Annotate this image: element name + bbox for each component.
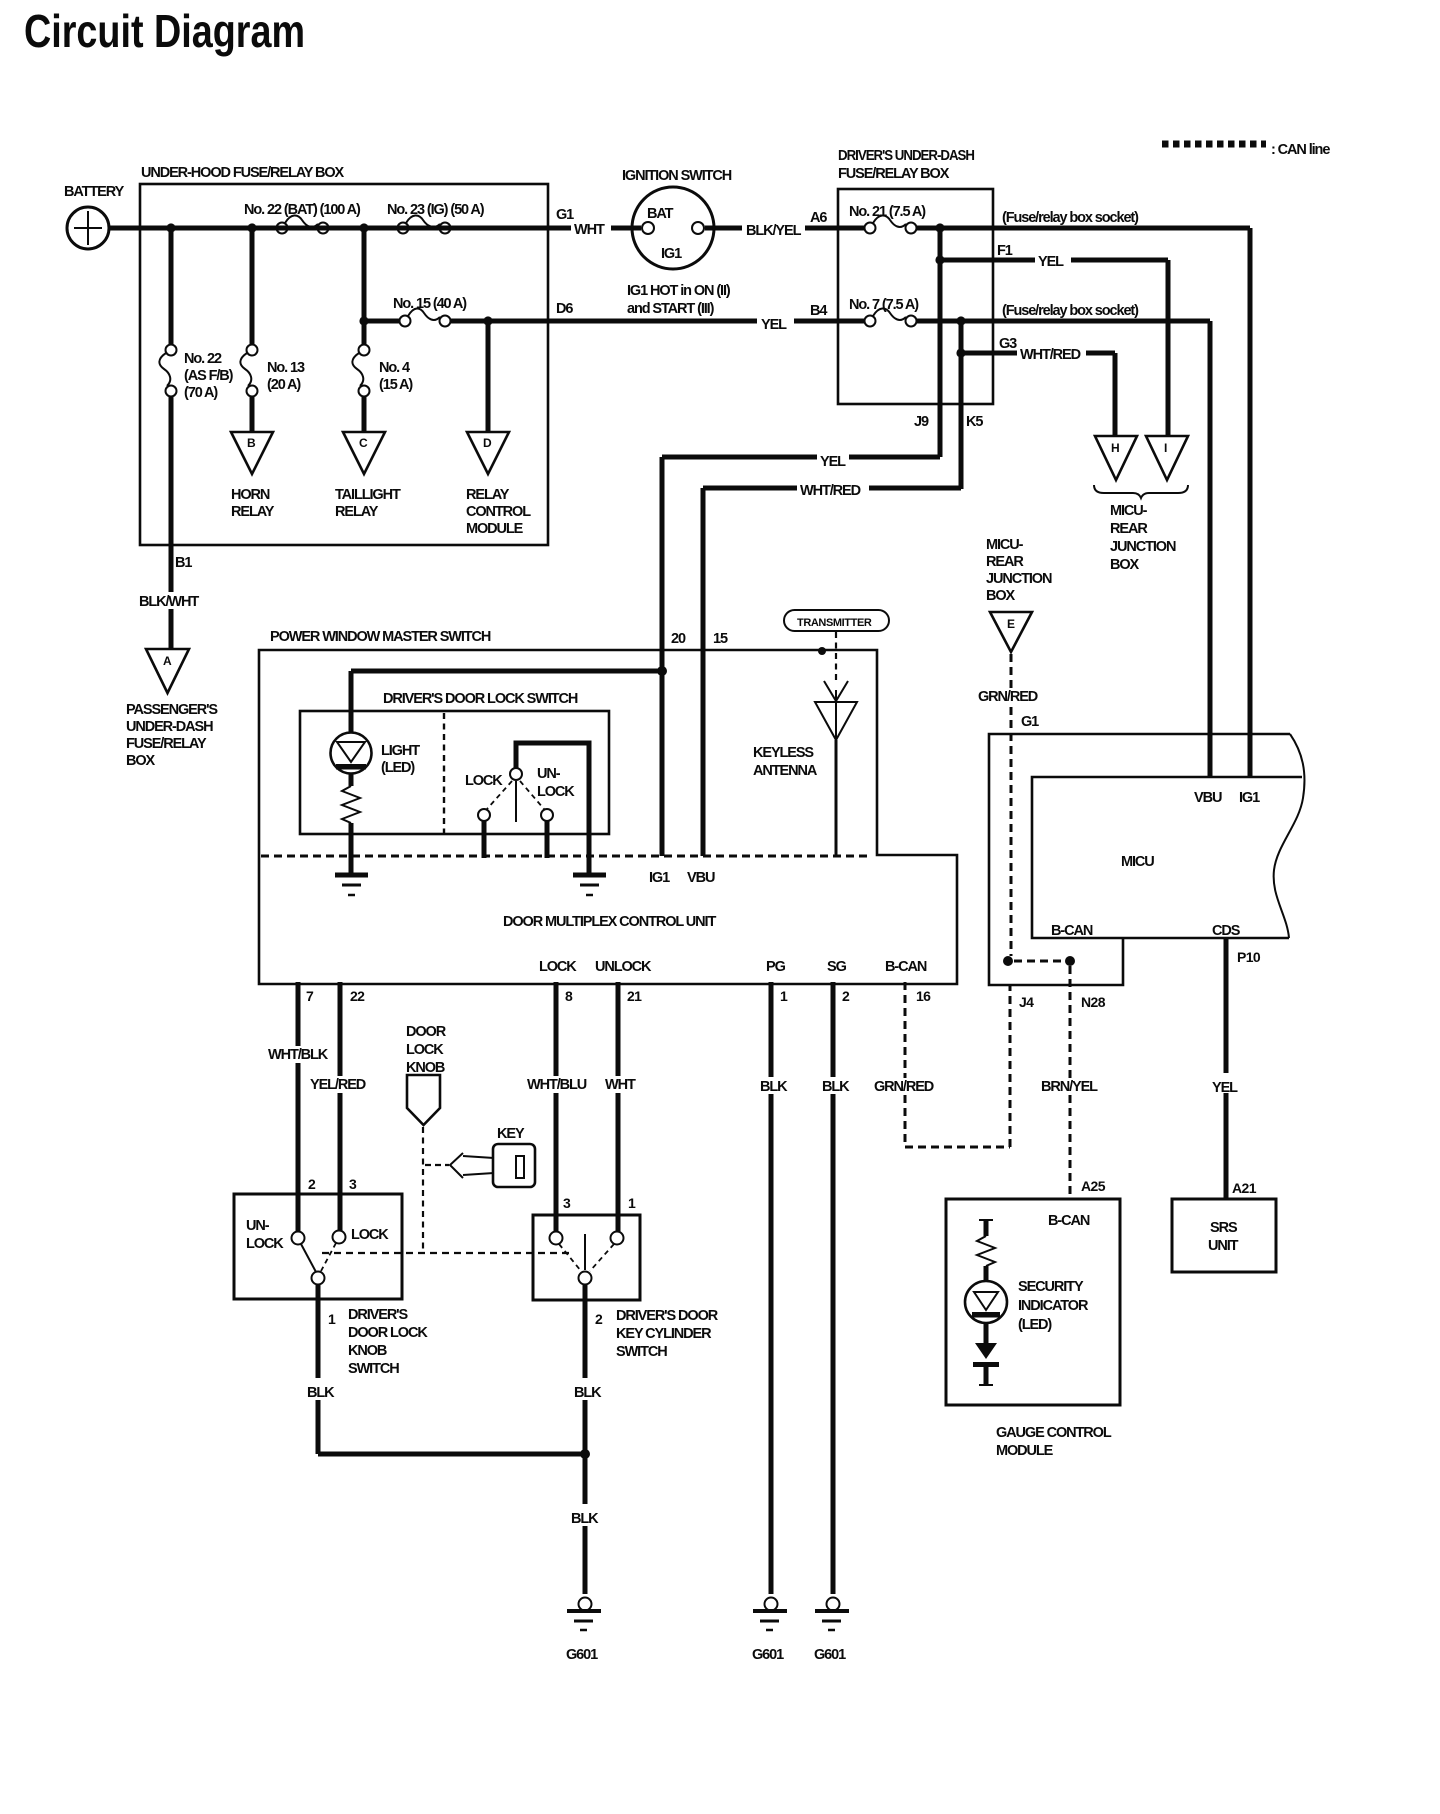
svg-text:UNDER-HOOD FUSE/RELAY BOX: UNDER-HOOD FUSE/RELAY BOX	[141, 165, 345, 181]
svg-text:GRN/RED: GRN/RED	[874, 1079, 934, 1095]
svg-text:BLK: BLK	[307, 1385, 335, 1401]
svg-text:IG1: IG1	[661, 246, 682, 262]
key	[450, 1126, 535, 1187]
wire YEL to pin 20	[662, 454, 940, 856]
svg-text:(Fuse/relay box socket): (Fuse/relay box socket)	[1002, 210, 1139, 226]
wire SG BLK	[822, 982, 850, 1594]
svg-text:A6: A6	[810, 210, 827, 226]
svg-text:SRS: SRS	[1210, 1220, 1238, 1236]
transmitter	[784, 610, 889, 631]
svg-text:1: 1	[780, 988, 788, 1004]
connector B horn relay	[231, 432, 275, 520]
svg-text:TRANSMITTER: TRANSMITTER	[797, 617, 872, 629]
svg-text:B-CAN: B-CAN	[1048, 1213, 1090, 1229]
svg-text:E: E	[1007, 617, 1015, 631]
svg-text:VBU: VBU	[687, 870, 715, 886]
svg-text:MICU-: MICU-	[986, 537, 1024, 553]
wire IG1 feed to MICU	[1248, 228, 1253, 777]
svg-text:JUNCTION: JUNCTION	[1110, 539, 1176, 555]
svg-text:LIGHT: LIGHT	[381, 743, 420, 759]
svg-text:BLK: BLK	[571, 1511, 599, 1527]
wire BLK joining	[318, 1449, 599, 1594]
svg-text:MICU-: MICU-	[1110, 503, 1148, 519]
junction connector G1 box	[989, 734, 1290, 985]
svg-text:No. 15 (40 A): No. 15 (40 A)	[393, 296, 467, 312]
driver's door key cylinder switch box	[533, 1215, 640, 1300]
node dot on box edge	[818, 647, 826, 655]
svg-text:DRIVER'S DOOR LOCK SWITCH: DRIVER'S DOOR LOCK SWITCH	[383, 691, 578, 707]
wire dashed mechanical link	[322, 1252, 573, 1254]
wire pin21 WHT	[605, 982, 636, 1232]
svg-text:B-CAN: B-CAN	[885, 959, 927, 975]
svg-text:WHT/BLU: WHT/BLU	[527, 1077, 587, 1093]
svg-text:20: 20	[671, 631, 686, 647]
svg-text:SECURITY: SECURITY	[1018, 1279, 1084, 1295]
wire G3 WHT/RED	[961, 336, 1115, 436]
svg-text:RELAY: RELAY	[466, 487, 510, 503]
svg-text:(15 A): (15 A)	[379, 377, 413, 393]
wire GRN/RED dashed from E	[978, 654, 1038, 956]
svg-text:B1: B1	[175, 555, 192, 571]
svg-text:BLK/WHT: BLK/WHT	[139, 594, 199, 610]
svg-text:LOCK: LOCK	[465, 773, 503, 789]
svg-text:(LED): (LED)	[1018, 1317, 1052, 1333]
wire D6 YEL bus	[359, 228, 1210, 333]
srs unit box	[1172, 1199, 1276, 1272]
brace micu-rear junction box	[1094, 485, 1188, 573]
switch lock/unlock in master	[465, 743, 589, 873]
fuse No.21 (7.5 A)	[849, 204, 926, 234]
svg-text:C: C	[359, 436, 368, 450]
svg-text:G601: G601	[814, 1647, 846, 1663]
security indicator diode	[973, 1323, 999, 1385]
svg-text:J9: J9	[914, 414, 929, 430]
svg-text:LOCK: LOCK	[246, 1236, 284, 1252]
svg-text:KNOB: KNOB	[348, 1343, 387, 1359]
door lock knob	[406, 1024, 447, 1125]
svg-text:JUNCTION: JUNCTION	[986, 571, 1052, 587]
wire WHT/RED to pin 15	[703, 483, 961, 856]
svg-text:FUSE/RELAY BOX: FUSE/RELAY BOX	[838, 166, 950, 182]
svg-text:YEL: YEL	[761, 317, 787, 333]
battery	[64, 184, 125, 249]
svg-text:SWITCH: SWITCH	[616, 1344, 667, 1360]
svg-text:UN-: UN-	[537, 766, 561, 782]
keyless antenna	[753, 681, 857, 857]
connector I	[1146, 436, 1188, 480]
wire transmitter dashed	[835, 632, 837, 682]
svg-text:DOOR: DOOR	[406, 1024, 447, 1040]
svg-text:K5: K5	[966, 414, 983, 430]
ground G601 PG	[752, 1598, 787, 1664]
svg-text:P10: P10	[1237, 949, 1261, 965]
svg-text:RELAY: RELAY	[231, 504, 275, 520]
svg-text:BOX: BOX	[1110, 557, 1140, 573]
svg-text:2: 2	[842, 988, 850, 1004]
svg-text:YEL: YEL	[1038, 254, 1064, 270]
svg-text:MICU: MICU	[1121, 854, 1154, 870]
svg-text:DRIVER'S DOOR: DRIVER'S DOOR	[616, 1308, 719, 1324]
wire relay control module drop	[486, 321, 491, 432]
svg-text:B-CAN: B-CAN	[1051, 923, 1093, 939]
fuse No.23 (IG) (50 A)	[387, 202, 485, 234]
svg-text:D6: D6	[556, 301, 573, 317]
svg-text:SG: SG	[827, 959, 847, 975]
wire fuse column 1	[169, 228, 174, 649]
ground G601 SG	[814, 1598, 849, 1664]
fuse No.15 (40 A)	[393, 296, 467, 327]
svg-text:G1: G1	[1021, 714, 1039, 730]
wire B-CAN GRN/RED dashed loop	[874, 982, 1010, 1147]
fuse No.13 (20 A)	[240, 345, 305, 397]
svg-text:16: 16	[916, 988, 931, 1004]
svg-text:No. 13: No. 13	[267, 360, 305, 376]
svg-text:: CAN line: : CAN line	[1271, 142, 1330, 158]
svg-text:No. 23 (IG) (50 A): No. 23 (IG) (50 A)	[387, 202, 485, 218]
wire knob dashed	[422, 1127, 424, 1253]
svg-text:PG: PG	[766, 959, 786, 975]
wire knob common	[307, 1285, 336, 1454]
svg-text:UN-: UN-	[246, 1218, 270, 1234]
svg-text:CONTROL: CONTROL	[466, 504, 531, 520]
svg-text:YEL: YEL	[820, 454, 846, 470]
svg-text:UNIT: UNIT	[1208, 1238, 1239, 1254]
svg-text:RELAY: RELAY	[335, 504, 379, 520]
ignition switch	[622, 168, 732, 317]
svg-text:WHT: WHT	[574, 222, 605, 238]
ground LED	[335, 875, 368, 895]
svg-text:MODULE: MODULE	[466, 521, 524, 537]
svg-text:No. 22: No. 22	[184, 351, 222, 367]
svg-text:B4: B4	[810, 303, 827, 319]
wire key cylinder common	[574, 1285, 603, 1454]
driver's door lock knob switch box	[234, 1194, 402, 1299]
svg-text:GAUGE CONTROL: GAUGE CONTROL	[996, 1425, 1112, 1441]
svg-text:D: D	[483, 436, 492, 450]
switch key cylinder contacts	[550, 1232, 624, 1285]
fuse No.7 (7.5 A)	[849, 297, 919, 327]
svg-text:15: 15	[713, 631, 728, 647]
svg-text:YEL: YEL	[1212, 1080, 1238, 1096]
power window master switch box	[259, 629, 957, 984]
gauge control module box	[946, 1199, 1120, 1459]
legend CAN line	[1162, 142, 1330, 158]
connector C taillight relay	[335, 432, 401, 520]
svg-text:LOCK: LOCK	[406, 1042, 444, 1058]
svg-text:WHT/RED: WHT/RED	[1020, 347, 1081, 363]
svg-text:F1: F1	[997, 243, 1013, 259]
svg-text:BLK: BLK	[574, 1385, 602, 1401]
wire pin22 YEL/RED	[310, 982, 366, 1231]
svg-text:BLK/YEL: BLK/YEL	[746, 223, 802, 239]
svg-text:MODULE: MODULE	[996, 1443, 1054, 1459]
svg-text:ANTENNA: ANTENNA	[753, 763, 818, 779]
svg-text:A21: A21	[1232, 1180, 1257, 1196]
svg-text:(20 A): (20 A)	[267, 377, 301, 393]
svg-text:BOX: BOX	[126, 753, 156, 769]
svg-text:DRIVER'S UNDER-DASH: DRIVER'S UNDER-DASH	[838, 148, 975, 164]
svg-text:BAT: BAT	[647, 206, 674, 222]
security indicator LED	[965, 1279, 1089, 1333]
svg-text:BLK: BLK	[760, 1079, 788, 1095]
wire fuse column 3	[362, 321, 367, 432]
svg-text:PASSENGER'S: PASSENGER'S	[126, 702, 218, 718]
svg-text:TAILLIGHT: TAILLIGHT	[335, 487, 401, 503]
svg-text:and START (III): and START (III)	[627, 301, 715, 317]
svg-text:CDS: CDS	[1212, 923, 1241, 939]
svg-text:3: 3	[563, 1195, 571, 1211]
svg-text:3: 3	[349, 1176, 357, 1192]
connector E micu-rear junction box	[986, 537, 1052, 652]
svg-text:No. 7 (7.5 A): No. 7 (7.5 A)	[849, 297, 919, 313]
connector A passenger's box	[126, 649, 218, 769]
svg-text:REAR: REAR	[986, 554, 1024, 570]
svg-text:(Fuse/relay box socket): (Fuse/relay box socket)	[1002, 303, 1139, 319]
svg-text:DRIVER'S: DRIVER'S	[348, 1307, 409, 1323]
wire J9 drop	[938, 228, 943, 457]
svg-text:KEY CYLINDER: KEY CYLINDER	[616, 1326, 712, 1342]
wire pin8 WHT/BLU	[527, 982, 587, 1232]
fuse No.22 (AS F/B) (70 A)	[159, 345, 233, 402]
svg-text:J4: J4	[1019, 994, 1034, 1010]
wire BRN/YEL dashed	[1041, 966, 1106, 1199]
ground G601 left	[566, 1598, 601, 1664]
svg-text:LOCK: LOCK	[351, 1227, 389, 1243]
LED light	[331, 733, 421, 777]
svg-text:KNOB: KNOB	[406, 1060, 445, 1076]
wire B-CAN internal dashed link	[1003, 956, 1075, 966]
wire battery bus	[109, 226, 1250, 231]
node IG1 junction	[657, 666, 667, 676]
svg-text:IGNITION SWITCH: IGNITION SWITCH	[622, 168, 732, 184]
wire VBU feed to MICU	[1208, 321, 1213, 777]
under-hood fuse/relay box	[140, 165, 548, 545]
svg-text:BOX: BOX	[986, 588, 1016, 604]
svg-text:A: A	[163, 654, 172, 668]
svg-text:BLK: BLK	[822, 1079, 850, 1095]
svg-text:IG1: IG1	[649, 870, 670, 886]
svg-text:1: 1	[628, 1195, 636, 1211]
node battery bus junctions	[166, 223, 368, 232]
svg-text:SWITCH: SWITCH	[348, 1361, 399, 1377]
svg-text:KEYLESS: KEYLESS	[753, 745, 814, 761]
svg-text:POWER WINDOW MASTER SWITCH: POWER WINDOW MASTER SWITCH	[270, 629, 491, 645]
wire CDS YEL	[1212, 938, 1261, 1199]
svg-text:WHT: WHT	[605, 1077, 636, 1093]
svg-text:WHT/RED: WHT/RED	[800, 483, 861, 499]
svg-text:No. 4: No. 4	[379, 360, 410, 376]
svg-text:H: H	[1111, 441, 1119, 455]
svg-text:Circuit Diagram: Circuit Diagram	[24, 5, 305, 57]
driver's door lock switch box	[300, 691, 609, 834]
wire K5 drop	[959, 321, 964, 489]
svg-text:WHT/BLK: WHT/BLK	[268, 1047, 329, 1063]
label driver's door key cylinder switch	[616, 1308, 719, 1360]
svg-text:INDICATOR: INDICATOR	[1018, 1298, 1089, 1314]
switch knob contacts	[292, 1231, 346, 1285]
svg-text:BRN/YEL: BRN/YEL	[1041, 1079, 1098, 1095]
svg-text:(70 A): (70 A)	[184, 385, 218, 401]
fuse No.4 (15 A)	[352, 345, 413, 397]
svg-text:I: I	[1164, 441, 1167, 455]
svg-text:G3: G3	[999, 336, 1017, 352]
ground switch	[573, 875, 606, 895]
svg-text:A25: A25	[1081, 1178, 1106, 1194]
security indicator resistor	[977, 1219, 995, 1282]
svg-text:(LED): (LED)	[381, 760, 415, 776]
micu box	[1032, 734, 1304, 939]
svg-text:21: 21	[627, 988, 642, 1004]
node junctions in driver's box	[935, 223, 965, 357]
wire PG BLK	[760, 982, 788, 1594]
svg-text:IG1 HOT in ON (II): IG1 HOT in ON (II)	[627, 283, 731, 299]
svg-text:VBU: VBU	[1194, 790, 1222, 806]
svg-text:LOCK: LOCK	[537, 784, 575, 800]
door multiplex control unit	[503, 914, 927, 975]
svg-text:LOCK: LOCK	[539, 959, 577, 975]
svg-text:YEL/RED: YEL/RED	[310, 1077, 366, 1093]
wire fuse column 2	[250, 228, 255, 432]
svg-text:DOOR LOCK: DOOR LOCK	[348, 1325, 428, 1341]
svg-text:HORN: HORN	[231, 487, 270, 503]
wire F1 YEL	[940, 243, 1168, 436]
resistor in switch	[342, 773, 360, 873]
svg-text:2: 2	[595, 1311, 603, 1327]
connector D relay control module	[466, 432, 531, 537]
svg-text:KEY: KEY	[497, 1126, 525, 1142]
wire pin7 WHT/BLK	[268, 982, 329, 1232]
svg-text:22: 22	[350, 988, 365, 1004]
svg-text:No. 21 (7.5 A): No. 21 (7.5 A)	[849, 204, 926, 220]
wire key dashed link	[425, 1164, 449, 1166]
svg-text:UNLOCK: UNLOCK	[595, 959, 652, 975]
svg-text:IG1: IG1	[1239, 790, 1260, 806]
svg-text:G601: G601	[566, 1647, 598, 1663]
svg-text:DOOR MULTIPLEX CONTROL UNIT: DOOR MULTIPLEX CONTROL UNIT	[503, 914, 716, 930]
label driver's door lock knob switch	[348, 1307, 428, 1377]
svg-text:1: 1	[328, 1311, 336, 1327]
svg-text:(AS F/B): (AS F/B)	[184, 368, 234, 384]
svg-text:GRN/RED: GRN/RED	[978, 689, 1038, 705]
svg-text:N28: N28	[1081, 994, 1106, 1010]
svg-text:UNDER-DASH: UNDER-DASH	[126, 719, 213, 735]
svg-text:B: B	[247, 436, 256, 450]
fuse No.22 (BAT) (100 A)	[244, 202, 361, 234]
svg-text:2: 2	[308, 1176, 316, 1192]
driver's under-dash fuse/relay box	[838, 148, 993, 404]
node G1 / wire WHT	[556, 207, 605, 238]
connector H	[1095, 436, 1137, 480]
node B1 / wire BLK/WHT	[139, 555, 199, 610]
svg-text:REAR: REAR	[1110, 521, 1148, 537]
svg-text:8: 8	[565, 988, 573, 1004]
svg-text:G601: G601	[752, 1647, 784, 1663]
svg-text:BATTERY: BATTERY	[64, 184, 125, 200]
svg-text:G1: G1	[556, 207, 574, 223]
svg-text:No. 22 (BAT) (100 A): No. 22 (BAT) (100 A)	[244, 202, 361, 218]
wire LED feed	[351, 671, 662, 733]
svg-text:FUSE/RELAY: FUSE/RELAY	[126, 736, 207, 752]
svg-text:7: 7	[306, 988, 314, 1004]
